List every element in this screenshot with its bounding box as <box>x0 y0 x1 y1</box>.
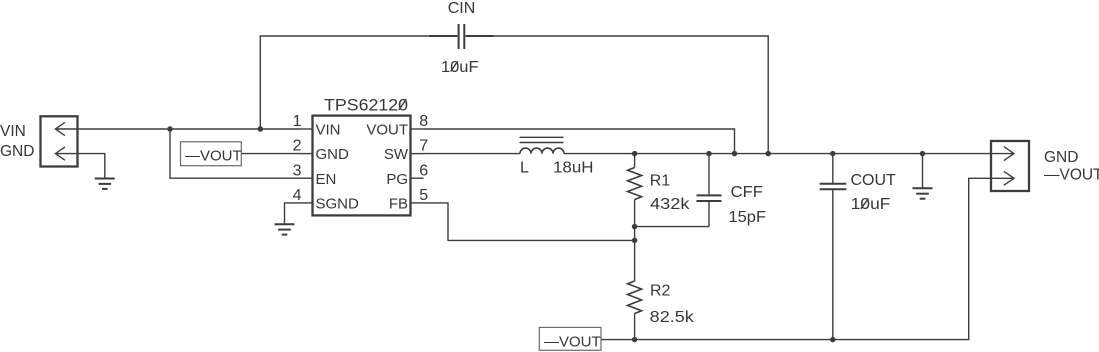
svg-text:82.5k: 82.5k <box>650 309 695 326</box>
svg-text:VIN: VIN <box>0 123 26 140</box>
svg-text:4: 4 <box>293 187 302 204</box>
pin 8 VOUT <box>412 128 424 130</box>
svg-text:1: 1 <box>293 113 302 130</box>
junction node (768.2,153.6) <box>765 151 771 157</box>
svg-text:VIN: VIN <box>316 122 341 139</box>
wire output rail: inductor to output connector <box>564 153 991 155</box>
wire VIN: input connector to IC pin 1 <box>78 128 300 130</box>
wire input GND pin to ground <box>78 154 105 179</box>
pin 6 PG <box>412 177 424 179</box>
junction node (832.8,153.6) <box>830 151 836 157</box>
connector J1 input VIN/GND <box>41 116 78 166</box>
wire CIN top branch right, down to output rail <box>467 36 768 154</box>
junction node (734.5,153.6) <box>732 151 738 157</box>
wire junction R1-FB vertical <box>634 227 636 241</box>
junction node (634.6,153.6) <box>632 151 638 157</box>
pin 4 SGND <box>300 202 313 204</box>
wire EN: from VIN node down to IC pin 3 <box>170 129 300 178</box>
junction node (170,129) <box>167 126 173 132</box>
wire SGND pin 4 to ground <box>285 203 300 224</box>
svg-text:PG: PG <box>386 171 408 188</box>
svg-text:—VOUT: —VOUT <box>544 333 601 350</box>
svg-text:3: 3 <box>293 162 302 179</box>
svg-text:FB: FB <box>389 196 408 213</box>
junction node (634.6,240.4) <box>632 238 638 244</box>
svg-text:6: 6 <box>419 162 428 179</box>
op IC U1 TPS62120 body <box>313 116 411 216</box>
svg-text:—VOUT: —VOUT <box>185 148 242 165</box>
svg-text:GND: GND <box>316 146 350 163</box>
svg-text:GND: GND <box>0 143 34 160</box>
svg-text:COUT: COUT <box>851 172 897 189</box>
svg-text:CIN: CIN <box>448 0 476 17</box>
wire -VOUT label box to IC pin 2 GND <box>241 153 299 155</box>
junction node (832.8,339.6) <box>830 337 836 343</box>
capacitor CIN lead left <box>429 35 457 37</box>
pin arrow VIN (left) <box>55 122 77 135</box>
wire COUT bottom <box>832 189 834 339</box>
svg-text:432k: 432k <box>650 196 691 213</box>
svg-text:5: 5 <box>419 187 428 204</box>
resistor R1 <box>634 154 636 168</box>
resistor R2 <box>634 240 636 281</box>
pin 3 EN <box>300 177 313 179</box>
svg-text:TPS62120: TPS62120 <box>324 95 408 114</box>
wire CIN top branch left vertical <box>260 36 455 129</box>
svg-text:10uF: 10uF <box>441 59 479 76</box>
svg-text:10uF: 10uF <box>851 196 891 213</box>
svg-text:18uH: 18uH <box>553 160 594 177</box>
capacitor CIN lead right <box>466 35 494 37</box>
slash on zero of COUT 10uF <box>861 198 869 208</box>
wire FB pin 5 to feedback node <box>424 203 635 241</box>
svg-text:SGND: SGND <box>316 196 360 213</box>
connector J2 output GND/-VOUT <box>991 141 1029 191</box>
inductor L coil <box>520 148 564 154</box>
junction node (260.3,129) <box>258 126 264 132</box>
wire VOUT pin 8 down to output rail <box>424 129 735 154</box>
junction node (634.6,226.6) <box>632 224 638 230</box>
ground symbol SGND <box>275 223 295 225</box>
wire R1 bottom / CFF bottom to FB node <box>635 226 709 228</box>
junction node (634.6,339.6) <box>632 337 638 343</box>
pin 2 GND <box>300 153 313 155</box>
pin arrow GND (right) <box>991 147 1014 161</box>
net label -VOUT (at GND pin) <box>181 142 242 166</box>
pin 5 FB <box>412 202 424 204</box>
capacitor COUT <box>832 154 834 184</box>
svg-text:SW: SW <box>384 146 409 163</box>
wire output ground tap <box>922 154 924 189</box>
pin 7 SW <box>412 153 424 155</box>
pin 1 VIN <box>300 128 313 130</box>
capacitor CIN plates <box>458 24 460 49</box>
slash on zero of TPS62120 <box>399 99 407 110</box>
capacitor CFF <box>708 154 710 196</box>
slash on zero of CIN 10uF <box>451 61 458 71</box>
junction node (709,153.6) <box>706 151 712 157</box>
svg-text:L: L <box>520 160 529 177</box>
svg-text:R2: R2 <box>650 283 671 300</box>
svg-text:7: 7 <box>419 138 428 155</box>
net label -VOUT (feedback bottom) <box>539 327 601 350</box>
svg-text:VOUT: VOUT <box>366 122 408 139</box>
svg-text:GND: GND <box>1044 149 1078 166</box>
svg-text:—VOUT: —VOUT <box>1044 167 1099 184</box>
wire SW pin 7 to inductor <box>424 153 521 155</box>
wire -VOUT bottom rail <box>601 178 991 339</box>
svg-text:2: 2 <box>293 138 302 155</box>
ground symbol output <box>913 187 933 189</box>
ground symbol input <box>95 178 115 180</box>
svg-text:CFF: CFF <box>731 184 764 201</box>
junction node (922.5,153.6) <box>920 151 926 157</box>
pin arrow -VOUT (right) <box>991 171 1014 185</box>
pin arrow GND (left) <box>55 147 77 160</box>
svg-text:8: 8 <box>419 113 428 130</box>
svg-text:15pF: 15pF <box>729 209 767 226</box>
svg-text:R1: R1 <box>650 173 671 190</box>
inductor core bars <box>520 136 564 138</box>
svg-text:EN: EN <box>316 171 337 188</box>
